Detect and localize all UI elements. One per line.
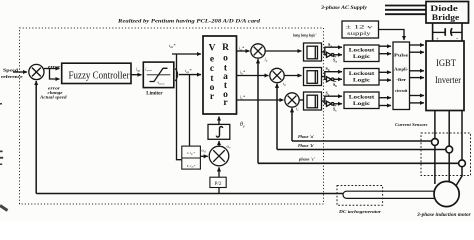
svg-text:e: e (210, 54, 214, 64)
svg-text:+: + (436, 36, 439, 42)
svg-text:Fuzzy Controller: Fuzzy Controller (69, 70, 130, 81)
svg-text:c: c (210, 64, 214, 74)
svg-text:Lockout: Lockout (349, 48, 375, 54)
svg-text:± 12 v: ± 12 v (345, 25, 373, 30)
svg-text:Logic: Logic (353, 78, 371, 84)
svg-text:reference: reference (1, 74, 23, 79)
svg-text:circuit: circuit (395, 88, 408, 93)
svg-text:Sb: Sb (333, 82, 337, 88)
svg-text:-iqmax: -iqmax (157, 80, 166, 86)
svg-text:ib: ib (283, 81, 286, 87)
svg-text:r: r (210, 92, 215, 102)
svg-text:ib*: ib* (240, 70, 246, 76)
svg-text:iqs*: iqs* (185, 68, 192, 74)
svg-text:Current Sensors: Current Sensors (395, 122, 428, 127)
svg-text:ωsl: ωsl (202, 149, 207, 154)
svg-text:L iqs*: L iqs* (186, 151, 195, 156)
svg-text:Logic: Logic (353, 54, 371, 60)
svg-text:ωe: ωe (227, 145, 232, 150)
svg-text:Sa: Sa (333, 58, 337, 64)
svg-text:IGBT: IGBT (436, 59, 456, 69)
svg-text:Limiter: Limiter (146, 92, 163, 97)
svg-text:phase 'c': phase 'c' (298, 157, 316, 162)
svg-text:P/2: P/2 (215, 182, 222, 187)
svg-text:Lockout: Lockout (349, 71, 375, 77)
svg-text:o: o (223, 53, 228, 63)
svg-text:Actual speed: Actual speed (39, 94, 68, 99)
svg-text:iqmax: iqmax (145, 66, 152, 72)
svg-text:Realized by Pentium having PCL: Realized by Pentium having PCL-208 A/D D… (117, 19, 260, 25)
svg-text:R: R (222, 43, 229, 53)
svg-text:Ampli-: Ampli- (394, 67, 409, 72)
svg-text:Inverter: Inverter (435, 75, 461, 85)
svg-text:Lockout: Lockout (349, 95, 375, 101)
svg-text:Logic: Logic (353, 101, 371, 107)
svg-text:DC tachogenerator: DC tachogenerator (338, 209, 381, 214)
svg-text:iqs: iqs (136, 67, 141, 73)
svg-text:Phase 'b': Phase 'b' (298, 143, 315, 148)
svg-text:θe: θe (240, 122, 245, 128)
svg-text:-: - (456, 36, 458, 42)
svg-text:Bridge: Bridge (432, 12, 460, 22)
svg-text:Pulse: Pulse (394, 53, 408, 58)
svg-text:ic: ic (296, 106, 299, 112)
svg-text:Phase 'a': Phase 'a' (298, 134, 315, 139)
svg-text:Sc: Sc (333, 107, 337, 113)
svg-text:V: V (209, 44, 216, 54)
svg-text:ia: ia (265, 57, 268, 63)
svg-text:3-phase induction motor: 3-phase induction motor (416, 213, 471, 218)
svg-text:3-phase AC Supply: 3-phase AC Supply (320, 6, 368, 11)
svg-text:bang bang logic': bang bang logic' (293, 33, 317, 38)
svg-text:ids*: ids* (169, 43, 176, 49)
svg-text:supply: supply (347, 32, 372, 37)
svg-text:Tr ids*: Tr ids* (187, 164, 196, 169)
svg-text:-fier: -fier (396, 77, 406, 82)
